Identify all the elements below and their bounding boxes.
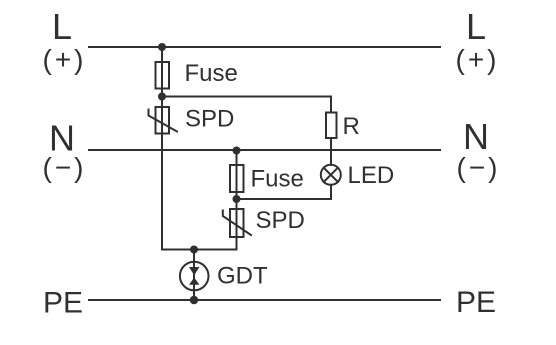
wire: GDT vertical (node to PE through GDT) xyxy=(193,250,195,301)
wire: bottom horizontal joining both SPD branches xyxy=(162,249,237,251)
fuse Fuse2 (N branch) xyxy=(230,165,244,192)
svg-text:N: N xyxy=(463,116,489,157)
svg-text:(−): (−) xyxy=(43,152,87,183)
LED indicator lamp xyxy=(321,165,341,185)
node: SPD common to GDT junction xyxy=(190,246,198,254)
varistor SPD2 (N branch) xyxy=(223,209,251,237)
wire: N bus line xyxy=(89,149,440,151)
svg-text:(+): (+) xyxy=(43,44,87,75)
node: Fuse2/SPD2/LED junction xyxy=(233,195,241,203)
svg-text:Fuse: Fuse xyxy=(251,166,304,193)
fuse Fuse1 (L branch) xyxy=(156,62,170,89)
svg-text:(+): (+) xyxy=(456,44,500,75)
svg-text:SPD: SPD xyxy=(256,207,305,234)
node: N line to Fuse2 junction xyxy=(233,147,241,155)
svg-text:SPD: SPD xyxy=(185,106,234,133)
svg-text:Fuse: Fuse xyxy=(185,60,238,87)
wire: LED bottom lead xyxy=(330,185,332,199)
node: GDT to PE junction xyxy=(190,296,199,305)
svg-text:PE: PE xyxy=(456,286,496,319)
wire: N-branch vertical (through Fuse2 and SPD2) xyxy=(236,150,238,250)
resistor R xyxy=(326,113,337,139)
svg-text:L: L xyxy=(466,6,486,47)
svg-text:PE: PE xyxy=(43,287,83,320)
svg-text:(−): (−) xyxy=(457,152,501,183)
wire: vertical between R and LED (crosses N line) xyxy=(330,138,332,165)
wire: horizontal from Fuse1 output to R branch xyxy=(162,96,331,98)
wire: horizontal from Fuse2 output to LED bottom xyxy=(237,198,332,200)
node: L line to Fuse1 junction xyxy=(158,43,166,51)
wire: L-branch vertical (through Fuse1 and SPD1) xyxy=(161,47,163,250)
varistor SPD1 (L branch) xyxy=(149,107,178,134)
svg-text:LED: LED xyxy=(348,162,395,189)
svg-text:L: L xyxy=(52,6,72,47)
node: Fuse1/SPD1/R junction xyxy=(158,93,166,101)
svg-text:GDT: GDT xyxy=(217,263,268,290)
wire: PE bus line xyxy=(89,299,440,301)
wire: L bus line xyxy=(89,46,440,48)
svg-text:R: R xyxy=(343,113,360,140)
wire: R branch vertical (R top lead) xyxy=(330,97,332,113)
gas discharge tube GDT xyxy=(180,262,209,291)
